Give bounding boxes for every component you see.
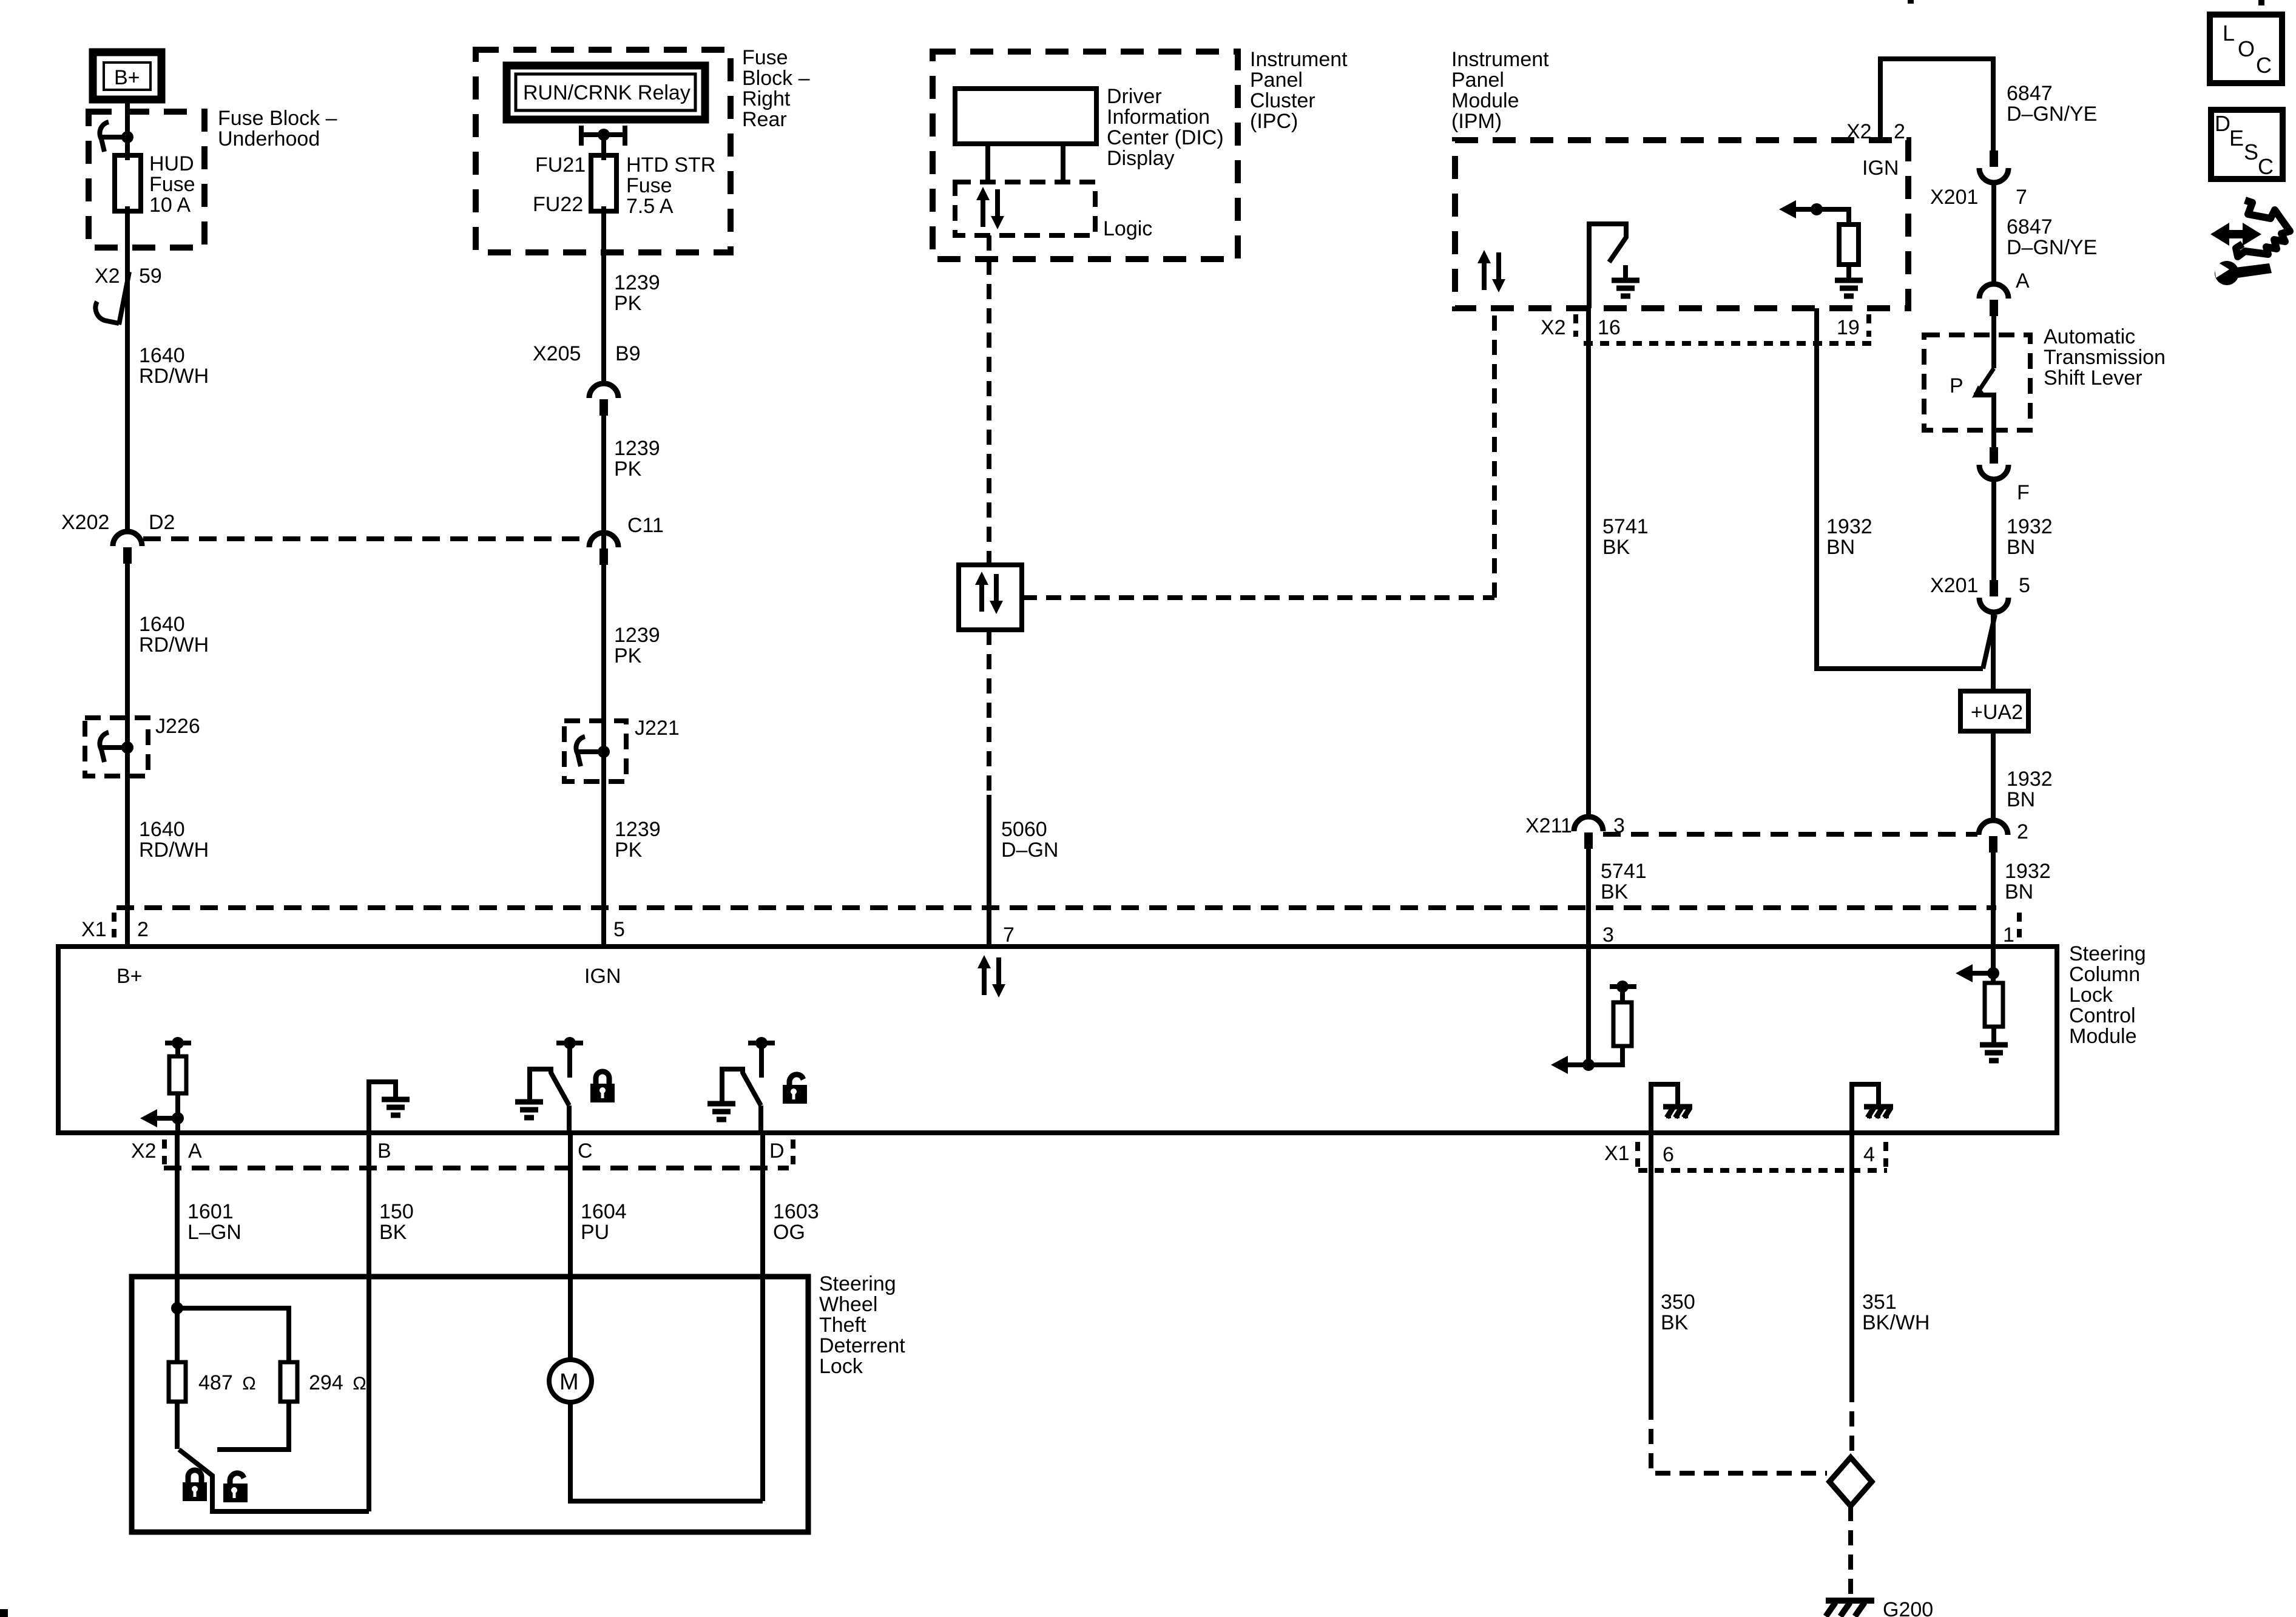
svg-text:OG: OG (773, 1221, 805, 1244)
svg-text:B: B (377, 1139, 391, 1163)
svg-text:A: A (188, 1139, 202, 1163)
svg-text:Deterrent: Deterrent (819, 1334, 905, 1357)
diagonal joint to X201-5 (1983, 615, 1995, 669)
DIC display rect (955, 89, 1096, 144)
svg-text:Instrument: Instrument (1250, 48, 1348, 71)
svg-text:C: C (2258, 154, 2274, 179)
svg-text:PK: PK (615, 839, 643, 862)
+UA2 box (1960, 691, 2028, 731)
svg-text:1239: 1239 (615, 818, 661, 841)
svg-text:16: 16 (1598, 316, 1621, 339)
svg-text:Cluster: Cluster (1250, 89, 1315, 112)
svg-text:7.5 A: 7.5 A (626, 195, 674, 218)
wire D into box (760, 1277, 765, 1501)
svg-text:X201: X201 (1930, 574, 1978, 597)
svg-text:Control: Control (2069, 1004, 2136, 1027)
svg-text:1640: 1640 (139, 818, 185, 841)
connector X201 5 (1979, 580, 2008, 612)
wire 6847 D-GN/YE label 2 (1991, 183, 1996, 284)
wire 1932 BN to module pin 1 (1991, 836, 1996, 947)
svg-text:5741: 5741 (1601, 860, 1647, 883)
svg-text:Ω: Ω (353, 1374, 366, 1394)
svg-text:F: F (2017, 481, 2030, 504)
svg-text:X2: X2 (1846, 120, 1872, 143)
battery feed B+ symbol box (93, 52, 161, 100)
svg-text:X211: X211 (1525, 814, 1572, 837)
svg-text:1932: 1932 (2005, 860, 2051, 883)
svg-text:D–GN/YE: D–GN/YE (2007, 236, 2097, 259)
svg-text:BN: BN (1826, 536, 1855, 559)
svg-text:487: 487 (198, 1371, 233, 1394)
svg-text:1: 1 (2003, 923, 2014, 947)
svg-text:C: C (2256, 53, 2272, 78)
module internal pin7 arrows (977, 955, 1005, 998)
svg-text:BK: BK (1601, 880, 1629, 903)
fuse HUD 10A (115, 155, 141, 211)
DIC legs (988, 144, 1063, 182)
IPM X2-2 exit wire (1880, 59, 1993, 151)
relay output bracket junction (581, 126, 625, 146)
svg-text:7: 7 (2016, 186, 2027, 209)
svg-text:Ω: Ω (242, 1374, 256, 1394)
svg-text:Center (DIC): Center (DIC) (1107, 126, 1224, 149)
dashed X211-3 to 2 (1603, 832, 1977, 837)
module internal chassis ground pin 6 (1651, 1084, 1678, 1133)
svg-text:PK: PK (614, 292, 642, 315)
svg-text:Steering: Steering (819, 1272, 896, 1295)
module internal resistor block pin 3 (1586, 947, 1591, 1065)
svg-text:Shift Lever: Shift Lever (2044, 366, 2142, 390)
steering column lock control module box (58, 947, 2057, 1133)
svg-text:D–GN: D–GN (1001, 839, 1058, 862)
svg-text:Fuse: Fuse (626, 174, 672, 197)
serial dashed to IPM (1022, 595, 1494, 600)
svg-text:150: 150 (379, 1200, 414, 1223)
svg-text:E: E (2229, 126, 2244, 150)
splice J226 (85, 718, 148, 776)
svg-text:Panel: Panel (1451, 69, 1504, 92)
svg-text:B+: B+ (114, 66, 140, 89)
svg-text:1932: 1932 (2007, 515, 2053, 538)
svg-text:RD/WH: RD/WH (139, 839, 209, 862)
svg-text:Wheel: Wheel (819, 1293, 877, 1316)
bus bar hook junction (100, 122, 127, 152)
serial dashed below box (987, 630, 991, 795)
svg-text:Lock: Lock (819, 1355, 863, 1378)
svg-text:PK: PK (614, 457, 642, 481)
svg-text:X2: X2 (131, 1139, 157, 1163)
page artifact mark top center (1908, 0, 1914, 4)
logic up/down arrows (976, 187, 1004, 229)
svg-text:Underhood: Underhood (218, 127, 320, 150)
svg-text:1640: 1640 (139, 344, 185, 367)
IPM dashed box (1455, 140, 1908, 308)
svg-text:3: 3 (1602, 923, 1614, 947)
svg-text:Column: Column (2069, 963, 2140, 986)
svg-text:(IPM): (IPM) (1451, 110, 1502, 133)
page artifact mark top right (2258, 0, 2264, 5)
wire 150 BK (366, 1133, 371, 1277)
svg-text:Module: Module (1451, 89, 1519, 112)
wire 1601 L-GN (175, 1133, 180, 1277)
wire 350 BK (1649, 1133, 1653, 1405)
svg-text:PK: PK (614, 644, 642, 667)
connector row X1 (module top) (116, 905, 1996, 910)
svg-text:Fuse Block –: Fuse Block – (218, 107, 337, 130)
svg-text:Right: Right (742, 87, 791, 110)
svg-text:5: 5 (613, 918, 625, 941)
svg-text:Display: Display (1107, 147, 1174, 170)
svg-text:1932: 1932 (2007, 768, 2053, 791)
dashed to G200 (1848, 1506, 1853, 1596)
svg-text:Steering: Steering (2069, 942, 2146, 965)
wire 1603 OG (760, 1133, 765, 1277)
svg-text:Fuse: Fuse (742, 46, 788, 69)
svg-text:IGN: IGN (584, 965, 621, 988)
svg-text:B+: B+ (116, 965, 143, 988)
svg-text:BN: BN (2007, 536, 2035, 559)
svg-text:294: 294 (309, 1371, 343, 1394)
svg-text:Information: Information (1107, 106, 1210, 129)
svg-text:X202: X202 (61, 511, 109, 534)
svg-text:Logic: Logic (1103, 217, 1152, 240)
fuse block underhood dashed box (89, 112, 204, 248)
svg-text:X201: X201 (1930, 186, 1978, 209)
lock icons (183, 1470, 207, 1501)
connector X211 3 (1574, 817, 1603, 849)
svg-text:6847: 6847 (2007, 215, 2053, 238)
motor M (568, 1277, 573, 1360)
svg-text:6847: 6847 (2007, 82, 2053, 105)
svg-text:1932: 1932 (1826, 515, 1872, 538)
module internal lock switch at pin C (556, 1041, 583, 1045)
svg-text:C: C (578, 1139, 593, 1163)
svg-text:Module: Module (2069, 1025, 2137, 1048)
wire 5741 BK to module pin 3 (1586, 832, 1591, 947)
wire 5741 BK from IPM pin 16 (1586, 308, 1591, 817)
wire 5060 D-GN (987, 795, 991, 947)
svg-text:1239: 1239 (614, 624, 660, 647)
svg-text:+UA2: +UA2 (1971, 701, 2023, 724)
svg-text:D: D (2215, 111, 2230, 136)
svg-text:6: 6 (1663, 1143, 1674, 1166)
module internal resistor to ground pin 1 (1991, 947, 1996, 973)
svg-text:X2: X2 (1541, 316, 1566, 339)
svg-text:FU21: FU21 (535, 154, 586, 177)
svg-text:(IPC): (IPC) (1250, 110, 1298, 133)
wire 1932 BN from IPM pin 19 (1817, 308, 1983, 669)
svg-text:BK/WH: BK/WH (1862, 1311, 1930, 1334)
wire B+ to HUD fuse (125, 96, 130, 155)
svg-text:RUN/CRNK Relay: RUN/CRNK Relay (523, 81, 690, 104)
svg-text:RD/WH: RD/WH (139, 365, 209, 388)
LOC box (2210, 15, 2282, 83)
wire 1604 PU (568, 1133, 573, 1277)
svg-text:G200: G200 (1883, 1598, 1933, 1617)
svg-text:M: M (559, 1369, 579, 1395)
fuse block right rear dashed box (476, 50, 731, 252)
svg-text:D–GN/YE: D–GN/YE (2007, 103, 2097, 126)
page artifact mark bottom left (0, 1609, 8, 1617)
svg-text:1239: 1239 (614, 437, 660, 460)
serial data box with arrows (959, 565, 1022, 630)
svg-text:350: 350 (1661, 1291, 1695, 1314)
service icon wrench (2215, 261, 2239, 285)
svg-text:BK: BK (379, 1221, 407, 1244)
svg-text:2: 2 (137, 918, 149, 941)
theft lock switch (175, 1402, 180, 1449)
svg-text:X2: X2 (95, 265, 120, 288)
svg-text:HUD: HUD (149, 152, 194, 175)
svg-text:A: A (2016, 269, 2030, 292)
connector X2 59 jog (119, 272, 129, 325)
svg-text:Automatic: Automatic (2044, 325, 2135, 348)
switch P in shift lever (1991, 316, 1996, 368)
svg-text:J226: J226 (155, 715, 200, 738)
svg-text:Lock: Lock (2069, 984, 2113, 1007)
connector F (1991, 430, 1996, 448)
wire B into box (366, 1277, 371, 1511)
svg-text:BK: BK (1661, 1311, 1689, 1334)
svg-text:O: O (2238, 36, 2255, 61)
svg-text:Fuse: Fuse (149, 173, 195, 196)
svg-text:10 A: 10 A (149, 194, 191, 217)
svg-text:RD/WH: RD/WH (139, 633, 209, 657)
module internal chassis ground pin 4 (1852, 1084, 1879, 1133)
svg-text:PU: PU (581, 1221, 609, 1244)
shift lever dashed box (1924, 335, 2030, 430)
module internal sensor at pin A (165, 1041, 191, 1045)
wire 1239 PK mid (601, 399, 606, 947)
relay RUN/CRNK box (507, 66, 705, 120)
svg-text:Instrument: Instrument (1451, 48, 1549, 71)
svg-text:X1: X1 (81, 918, 107, 941)
svg-text:3: 3 (1613, 814, 1625, 837)
IPM resistor block pin 19 (1811, 203, 1823, 215)
svg-text:5: 5 (2019, 574, 2030, 597)
serial data dashed wire from logic (987, 235, 991, 565)
svg-text:1604: 1604 (581, 1200, 627, 1223)
svg-text:Driver: Driver (1107, 85, 1162, 108)
svg-text:1601: 1601 (187, 1200, 234, 1223)
svg-text:1239: 1239 (614, 271, 660, 294)
svg-text:1640: 1640 (139, 613, 185, 636)
wire fuse to X2-59 (125, 211, 130, 328)
svg-text:4: 4 (1863, 1143, 1875, 1166)
fuse HTD STR 7.5A FU21/FU22 (591, 155, 616, 211)
DESC box (2211, 110, 2283, 179)
svg-text:5741: 5741 (1602, 515, 1649, 538)
svg-text:7: 7 (1003, 923, 1015, 947)
IPM switch to ground pin 16 (1589, 224, 1626, 308)
ground G200 chassis (1826, 1601, 1874, 1616)
svg-text:Rear: Rear (742, 108, 787, 131)
svg-text:BN: BN (2005, 880, 2033, 903)
svg-text:D: D (769, 1139, 785, 1163)
module internal ground at pin B (369, 1082, 396, 1133)
svg-text:351: 351 (1862, 1291, 1897, 1314)
svg-text:FU22: FU22 (533, 193, 583, 216)
svg-text:BK: BK (1602, 536, 1630, 559)
svg-text:L–GN: L–GN (187, 1221, 241, 1244)
wire 351 BK/WH (1849, 1133, 1854, 1387)
svg-text:J221: J221 (635, 717, 680, 740)
steering wheel theft deterrent lock box (132, 1277, 808, 1532)
svg-text:C11: C11 (627, 514, 664, 537)
svg-text:Theft: Theft (819, 1314, 866, 1337)
dashed line D2 to C11 (143, 536, 588, 541)
svg-text:P: P (1950, 374, 1963, 397)
wire 1640 RD/WH mid (125, 547, 130, 947)
wire 1640 RD/WH upper (125, 325, 130, 532)
service icon outline (2236, 200, 2290, 257)
IPC dashed box (933, 52, 1238, 259)
IPM up/down arrows (1477, 250, 1505, 292)
diamond splice (1829, 1457, 1872, 1506)
wire 1932 BN (F to X201-5) (1991, 479, 1996, 581)
module internal unlock switch at pin D (748, 1041, 775, 1045)
wire 1932 BN below UA2 (1991, 731, 1996, 820)
theft lock resistor network (175, 1277, 180, 1308)
svg-text:5060: 5060 (1001, 818, 1047, 841)
svg-text:B9: B9 (615, 342, 641, 365)
svg-text:S: S (2244, 140, 2258, 164)
svg-text:X205: X205 (533, 342, 581, 365)
svg-text:BN: BN (2007, 788, 2035, 811)
svg-text:19: 19 (1837, 316, 1860, 339)
svg-text:Transmission: Transmission (2044, 346, 2166, 369)
svg-text:1603: 1603 (773, 1200, 819, 1223)
wire 1239 PK upper (601, 211, 606, 383)
splice J221 (564, 721, 626, 781)
connector A (1979, 284, 2008, 316)
svg-text:59: 59 (139, 265, 162, 288)
svg-text:L: L (2223, 21, 2235, 46)
svg-text:2: 2 (2017, 820, 2028, 843)
svg-text:Panel: Panel (1250, 69, 1303, 92)
service icon double arrow (2210, 200, 2290, 285)
logic dashed box (955, 182, 1095, 235)
svg-text:IGN: IGN (1862, 157, 1899, 180)
connector X201 7 (1979, 150, 2008, 183)
svg-text:HTD STR: HTD STR (626, 154, 715, 177)
svg-text:D2: D2 (149, 511, 175, 534)
svg-text:2: 2 (1894, 120, 1905, 143)
svg-text:Block –: Block – (742, 67, 810, 90)
connector 2 (right) (1979, 820, 2008, 852)
svg-text:X1: X1 (1604, 1142, 1630, 1165)
